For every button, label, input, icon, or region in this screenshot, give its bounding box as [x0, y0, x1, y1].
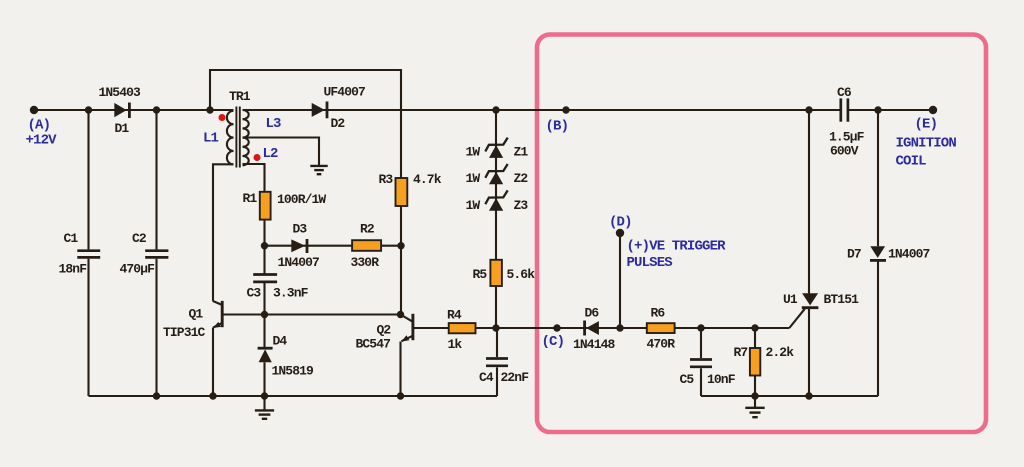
junction Q1 emitter rail: [209, 392, 216, 399]
svg-text:10nF: 10nF: [707, 372, 736, 387]
transistor Q1: [213, 301, 223, 328]
svg-text:(E): (E): [915, 117, 938, 133]
capacitor C4: [486, 359, 508, 366]
capacitor C2: [145, 251, 168, 258]
svg-text:C1: C1: [64, 231, 79, 246]
svg-text:18nF: 18nF: [59, 262, 88, 277]
wire Q1 base to node: [222, 313, 265, 315]
diode D1: [114, 103, 129, 119]
svg-text:U1: U1: [783, 292, 798, 307]
junction zener main: [492, 106, 499, 113]
svg-text:330R: 330R: [351, 255, 380, 270]
wire C1 top lead: [87, 110, 89, 249]
resistor R4: [449, 323, 476, 333]
SCR U1: [802, 293, 819, 307]
svg-text:R6: R6: [651, 306, 666, 321]
svg-text:R7: R7: [734, 345, 748, 360]
svg-text:(B): (B): [546, 119, 569, 135]
capacitor C5: [690, 360, 712, 367]
svg-text:PULSES: PULSES: [627, 255, 673, 271]
svg-text:IGNITION: IGNITION: [896, 136, 957, 152]
svg-text:100R/1W: 100R/1W: [277, 192, 326, 207]
zener Z3: [485, 190, 507, 210]
capacitor C1: [77, 251, 100, 258]
svg-text:D6: D6: [585, 306, 600, 321]
svg-text:1W: 1W: [466, 198, 481, 213]
wire zener chain upper: [495, 110, 497, 260]
svg-text:Z1: Z1: [514, 145, 529, 160]
svg-text:Z2: Z2: [514, 171, 529, 186]
svg-text:TR1: TR1: [229, 89, 251, 104]
wire R1 bottom to C3: [263, 220, 265, 275]
svg-text:(+)VE TRIGGER: (+)VE TRIGGER: [627, 239, 727, 255]
svg-text:R1: R1: [243, 191, 258, 206]
terminal D dot: [616, 229, 624, 237]
wire U1 gate diagonal: [789, 309, 805, 328]
wire top bias loop to R3: [210, 70, 401, 178]
ground main rail: [255, 396, 274, 419]
wire R7 top lead: [754, 328, 756, 348]
svg-text:UF4007: UF4007: [324, 85, 366, 100]
TR1 polarity dot secondary: [254, 154, 261, 161]
wire Q2 emitter to ground rail: [399, 342, 401, 397]
diode D6: [585, 321, 599, 336]
wire D7 cathode lead: [877, 261, 879, 396]
terminal A dot: [30, 106, 38, 114]
diode D7: [870, 246, 886, 260]
wire C1 bottom lead: [87, 259, 89, 396]
junction C5 trigger: [697, 324, 704, 331]
svg-text:TIP31C: TIP31C: [163, 325, 206, 340]
wire Q2 base to R4: [413, 327, 449, 329]
svg-text:+12V: +12V: [26, 133, 58, 149]
TR1 core: [236, 107, 239, 168]
junction Q2 emitter rail: [397, 392, 404, 399]
svg-text:C5: C5: [680, 372, 695, 387]
transformer TR1: [219, 107, 261, 168]
svg-text:L1: L1: [203, 131, 219, 147]
wire U1 anode lead: [808, 110, 810, 293]
TR1 secondary winding L3: [243, 110, 249, 138]
svg-text:1N5403: 1N5403: [99, 85, 142, 100]
wire C4 top lead: [496, 328, 498, 357]
svg-text:1N4007: 1N4007: [278, 255, 320, 270]
svg-text:D1: D1: [115, 121, 130, 136]
svg-text:(D): (D): [609, 215, 632, 231]
wire C2 top lead: [155, 110, 157, 249]
resistor R5: [490, 260, 502, 286]
TR1 polarity dot primary: [219, 114, 226, 121]
svg-text:470R: 470R: [647, 337, 676, 352]
wire C2 bottom lead: [155, 259, 157, 396]
svg-text:1W: 1W: [466, 171, 481, 186]
junction node D line: [616, 324, 623, 331]
wire Q1 emitter to ground rail: [212, 328, 214, 397]
TR1 secondary winding L2: [243, 138, 249, 166]
junction R2 R3: [397, 242, 404, 249]
svg-text:R2: R2: [360, 222, 375, 237]
junction TR1 top: [206, 106, 213, 113]
svg-text:R4: R4: [447, 308, 462, 323]
svg-text:C4: C4: [479, 370, 494, 385]
svg-text:C3: C3: [247, 286, 262, 301]
svg-text:1N4148: 1N4148: [573, 337, 616, 352]
svg-text:2.2k: 2.2k: [766, 345, 795, 360]
capacitor C6: [841, 98, 848, 121]
svg-text:Z3: Z3: [514, 198, 529, 213]
svg-text:22nF: 22nF: [501, 370, 530, 385]
resistor R1: [260, 192, 271, 220]
wire right ground rail: [701, 395, 878, 397]
svg-text:1.5µF: 1.5µF: [829, 130, 865, 145]
wire main 12V rail A: [34, 109, 234, 111]
svg-text:1N4007: 1N4007: [888, 247, 930, 262]
svg-text:(C): (C): [542, 334, 565, 350]
junction U1 main: [805, 106, 812, 113]
wire D4 to ground rail: [263, 362, 265, 396]
svg-text:1k: 1k: [448, 337, 463, 352]
junction Q1 base C3: [261, 311, 268, 318]
svg-text:D3: D3: [293, 222, 308, 237]
highlight box (pink rounded rectangle): [537, 35, 986, 433]
wire U1 cathode lead: [808, 309, 810, 396]
junction R1 D3: [261, 242, 268, 249]
wire left ground rail: [89, 395, 498, 397]
svg-text:(A): (A): [28, 118, 51, 134]
wire D7 anode lead: [877, 110, 879, 246]
wire main HV line left of C6: [243, 109, 840, 111]
svg-text:D4: D4: [273, 334, 288, 349]
junction R4 R5 C4: [492, 324, 499, 331]
svg-text:C6: C6: [837, 85, 852, 100]
ground TR1 secondary tap: [310, 166, 327, 174]
transistor Q2: [401, 314, 413, 342]
junction C2 rail: [153, 392, 160, 399]
svg-text:1W: 1W: [466, 145, 481, 160]
resistor R2: [352, 240, 381, 251]
junction D4 ground rail: [261, 392, 268, 399]
junction C2 main: [153, 106, 160, 113]
resistor R7: [750, 348, 760, 376]
diode D3: [291, 239, 307, 253]
svg-text:4.7k: 4.7k: [413, 172, 442, 187]
svg-text:Q2: Q2: [377, 323, 392, 338]
wire node D drop: [619, 233, 621, 328]
ground right section: [745, 396, 764, 417]
svg-text:L2: L2: [263, 146, 279, 162]
junction U1 cathode rail: [805, 392, 812, 399]
wire C5 bottom lead: [700, 368, 702, 396]
wire L2 bottom to R1 top: [243, 164, 265, 192]
junction R7 gate: [751, 324, 758, 331]
zener Z1: [485, 138, 507, 158]
TR1 primary winding L1: [227, 111, 234, 165]
wire R5 bottom to trigger node: [495, 286, 497, 328]
wire C4 bottom lead: [496, 367, 498, 396]
capacitor C3: [253, 275, 277, 282]
terminal E dot: [929, 106, 937, 114]
svg-text:3.3nF: 3.3nF: [273, 286, 309, 301]
diode D2: [312, 102, 327, 119]
wire L1 bottom to Q1 collector: [213, 164, 234, 300]
junction C1 main: [85, 106, 92, 113]
svg-text:D7: D7: [847, 247, 861, 262]
svg-text:L3: L3: [266, 116, 282, 132]
wire C5 top lead: [700, 328, 702, 358]
svg-text:D2: D2: [331, 116, 346, 131]
svg-text:1N5819: 1N5819: [272, 364, 315, 379]
wire R6 to U1 gate run: [675, 327, 790, 329]
svg-text:R3: R3: [379, 172, 394, 187]
wire base line to Q2 collector node: [265, 313, 401, 315]
svg-text:5.6k: 5.6k: [507, 267, 536, 282]
wire R4 to R6 trigger line: [476, 327, 647, 329]
junction R7 ground rail: [751, 392, 758, 399]
svg-text:BT151: BT151: [824, 292, 860, 307]
svg-text:470µF: 470µF: [120, 262, 156, 277]
svg-text:Q1: Q1: [189, 307, 204, 322]
wire TR1 center tap to ground: [243, 138, 320, 166]
wire D3 R2 line: [265, 245, 402, 247]
wire R7 bottom lead: [754, 376, 756, 397]
resistor R3: [396, 178, 408, 206]
zener Z2: [485, 164, 507, 184]
junction node B: [562, 106, 569, 113]
svg-text:BC547: BC547: [356, 337, 391, 352]
wire base node to D4: [263, 315, 265, 349]
resistor R6: [647, 323, 675, 333]
wire main HV line right of C6: [849, 109, 933, 111]
svg-text:C2: C2: [132, 231, 147, 246]
wire R3 bottom to Q2 collector node: [400, 206, 402, 315]
junction node C: [553, 324, 560, 331]
junction D7 main: [874, 106, 881, 113]
wire C3 to base node: [263, 282, 265, 315]
svg-text:COIL: COIL: [896, 154, 927, 170]
svg-text:600V: 600V: [830, 144, 859, 159]
junction Q2 collector: [397, 311, 404, 318]
diode D4: [258, 348, 273, 362]
svg-text:R5: R5: [473, 267, 488, 282]
